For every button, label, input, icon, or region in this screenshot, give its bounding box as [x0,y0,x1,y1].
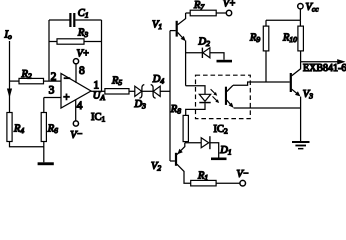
wire R6 bottom to ground [43,142,45,163]
wire D2 row [186,52,203,54]
svg-text:D3: D3 [134,99,147,111]
ground D2 [217,60,233,63]
label IC1 [91,112,106,124]
ground left [38,162,54,165]
light emission arrows [211,89,220,103]
wire feedback right vertical [101,20,103,91]
svg-text:2: 2 [51,71,57,83]
svg-text:+: + [83,49,89,60]
wire V3 emitter down [300,97,302,141]
wire R2 to pin 2 [44,80,62,82]
optocoupler IC2 dashed box [196,75,251,135]
svg-text:8: 8 [79,65,85,77]
pin number 3 [49,84,55,96]
svg-text:V3: V3 [303,89,313,101]
wire op-amp output [91,90,105,92]
svg-text:IC1: IC1 [91,112,106,124]
wire Io input vertical [9,41,11,113]
wire V1 emitter down [185,41,187,86]
wire R6 top to op-amp pin 3 [43,98,45,113]
wire R5 to D3 [129,90,135,92]
transistor V2 [151,143,191,184]
wire D4 to base line [160,90,170,92]
diode D1 [201,136,231,157]
V+ terminal pin 8 [73,49,89,83]
resistor R5 [105,76,129,94]
svg-text:4: 4 [77,100,83,112]
resistor R2 [19,69,44,84]
svg-text:IC2: IC2 [214,124,229,136]
transistor V1 [152,13,186,41]
op-amp plus sign [63,92,69,104]
wire R3 right [84,41,102,43]
resistor R6 [41,113,58,142]
phototransistor of IC2 [225,85,234,108]
svg-text:3: 3 [49,84,55,96]
resistor R7 [190,0,216,16]
wire top feedback to C1 [49,19,70,21]
svg-text:C1: C1 [78,8,89,20]
svg-text:D1: D1 [219,145,231,157]
svg-text:+: + [230,0,236,10]
wire Io to R2 [10,80,20,82]
wire R9 top stub [265,20,267,26]
wire opto emitter to V3 emitter [234,107,301,109]
Vcc terminal [298,2,320,14]
svg-text:R10: R10 [282,33,297,45]
svg-text:R5: R5 [111,76,122,88]
V- terminal bottom right [237,168,249,186]
LED of IC2 [199,94,210,103]
svg-text:UA: UA [93,90,106,102]
wire V1 collector to R7 [186,12,191,14]
svg-text:R9: R9 [249,33,260,45]
ground V3 [292,141,310,149]
svg-text:R7: R7 [193,0,204,12]
diode D4 [151,74,165,98]
svg-text:Vcc: Vcc [306,2,320,14]
output arrow EXB841-6 [301,59,346,74]
pin number 4 [77,100,83,112]
op-amp minus sign [64,73,71,85]
svg-text:R2: R2 [21,69,32,81]
wire R10 top stub [299,20,301,26]
transistor V3 [290,62,314,101]
wire R7 to V+ [216,12,226,14]
wire common base vertical [169,31,171,161]
V+ terminal top right [223,0,236,16]
wire Vcc down [299,9,301,20]
wire C1 to right vertical [75,19,101,21]
wire R4 bottom to node [10,142,44,147]
svg-text:R3: R3 [77,28,88,40]
diode D2 [198,37,225,60]
resistor R1 [191,170,216,186]
svg-text:D2: D2 [198,37,211,49]
resistor R10 [282,26,303,51]
wire pin 3 [44,97,61,99]
wire R9 bottom to base node [265,51,267,82]
wire LED anode [186,86,205,95]
resistor R4 [7,113,25,142]
node Io input label [4,30,13,42]
ground D1 [211,158,227,161]
resistor R3 [57,28,88,45]
wire Vcc rail to R9 [266,19,300,21]
resistor R9 [249,26,269,51]
wire feedback left vertical [48,20,50,81]
svg-text:D4: D4 [152,74,165,86]
wire D3 to D4 [142,90,153,92]
svg-text:R1: R1 [197,170,208,182]
op-amp IC1 triangle [61,74,91,109]
svg-text:Io: Io [4,30,13,42]
svg-text:R8: R8 [170,104,181,116]
wire R3 left [49,41,57,43]
capacitor C1 [69,8,88,27]
svg-text:−: − [243,168,248,178]
pin number 2 [51,71,57,83]
arrow current direction Io [7,89,12,99]
diode D3 [134,85,147,111]
svg-text:V2: V2 [151,161,161,173]
wire opto collector to V3 base [233,82,290,85]
svg-text:EXB841-6: EXB841-6 [303,63,346,74]
svg-text:R6: R6 [47,124,58,136]
pin number 8 [79,65,85,77]
svg-text:V1: V1 [152,20,162,32]
svg-text:−: − [77,129,82,139]
V- terminal pin 4 [70,100,82,141]
pin number 1 [93,80,99,92]
wire R10 bottom [300,51,302,62]
wire LED cathode to R8 [186,103,205,115]
wire R8 bottom junction [185,142,201,143]
svg-text:+: + [63,92,69,104]
svg-text:R4: R4 [13,124,24,136]
resistor R8 [170,104,189,142]
svg-text:−: − [64,73,71,85]
wire R1 to V- [216,182,240,184]
node UA output label [93,90,106,102]
